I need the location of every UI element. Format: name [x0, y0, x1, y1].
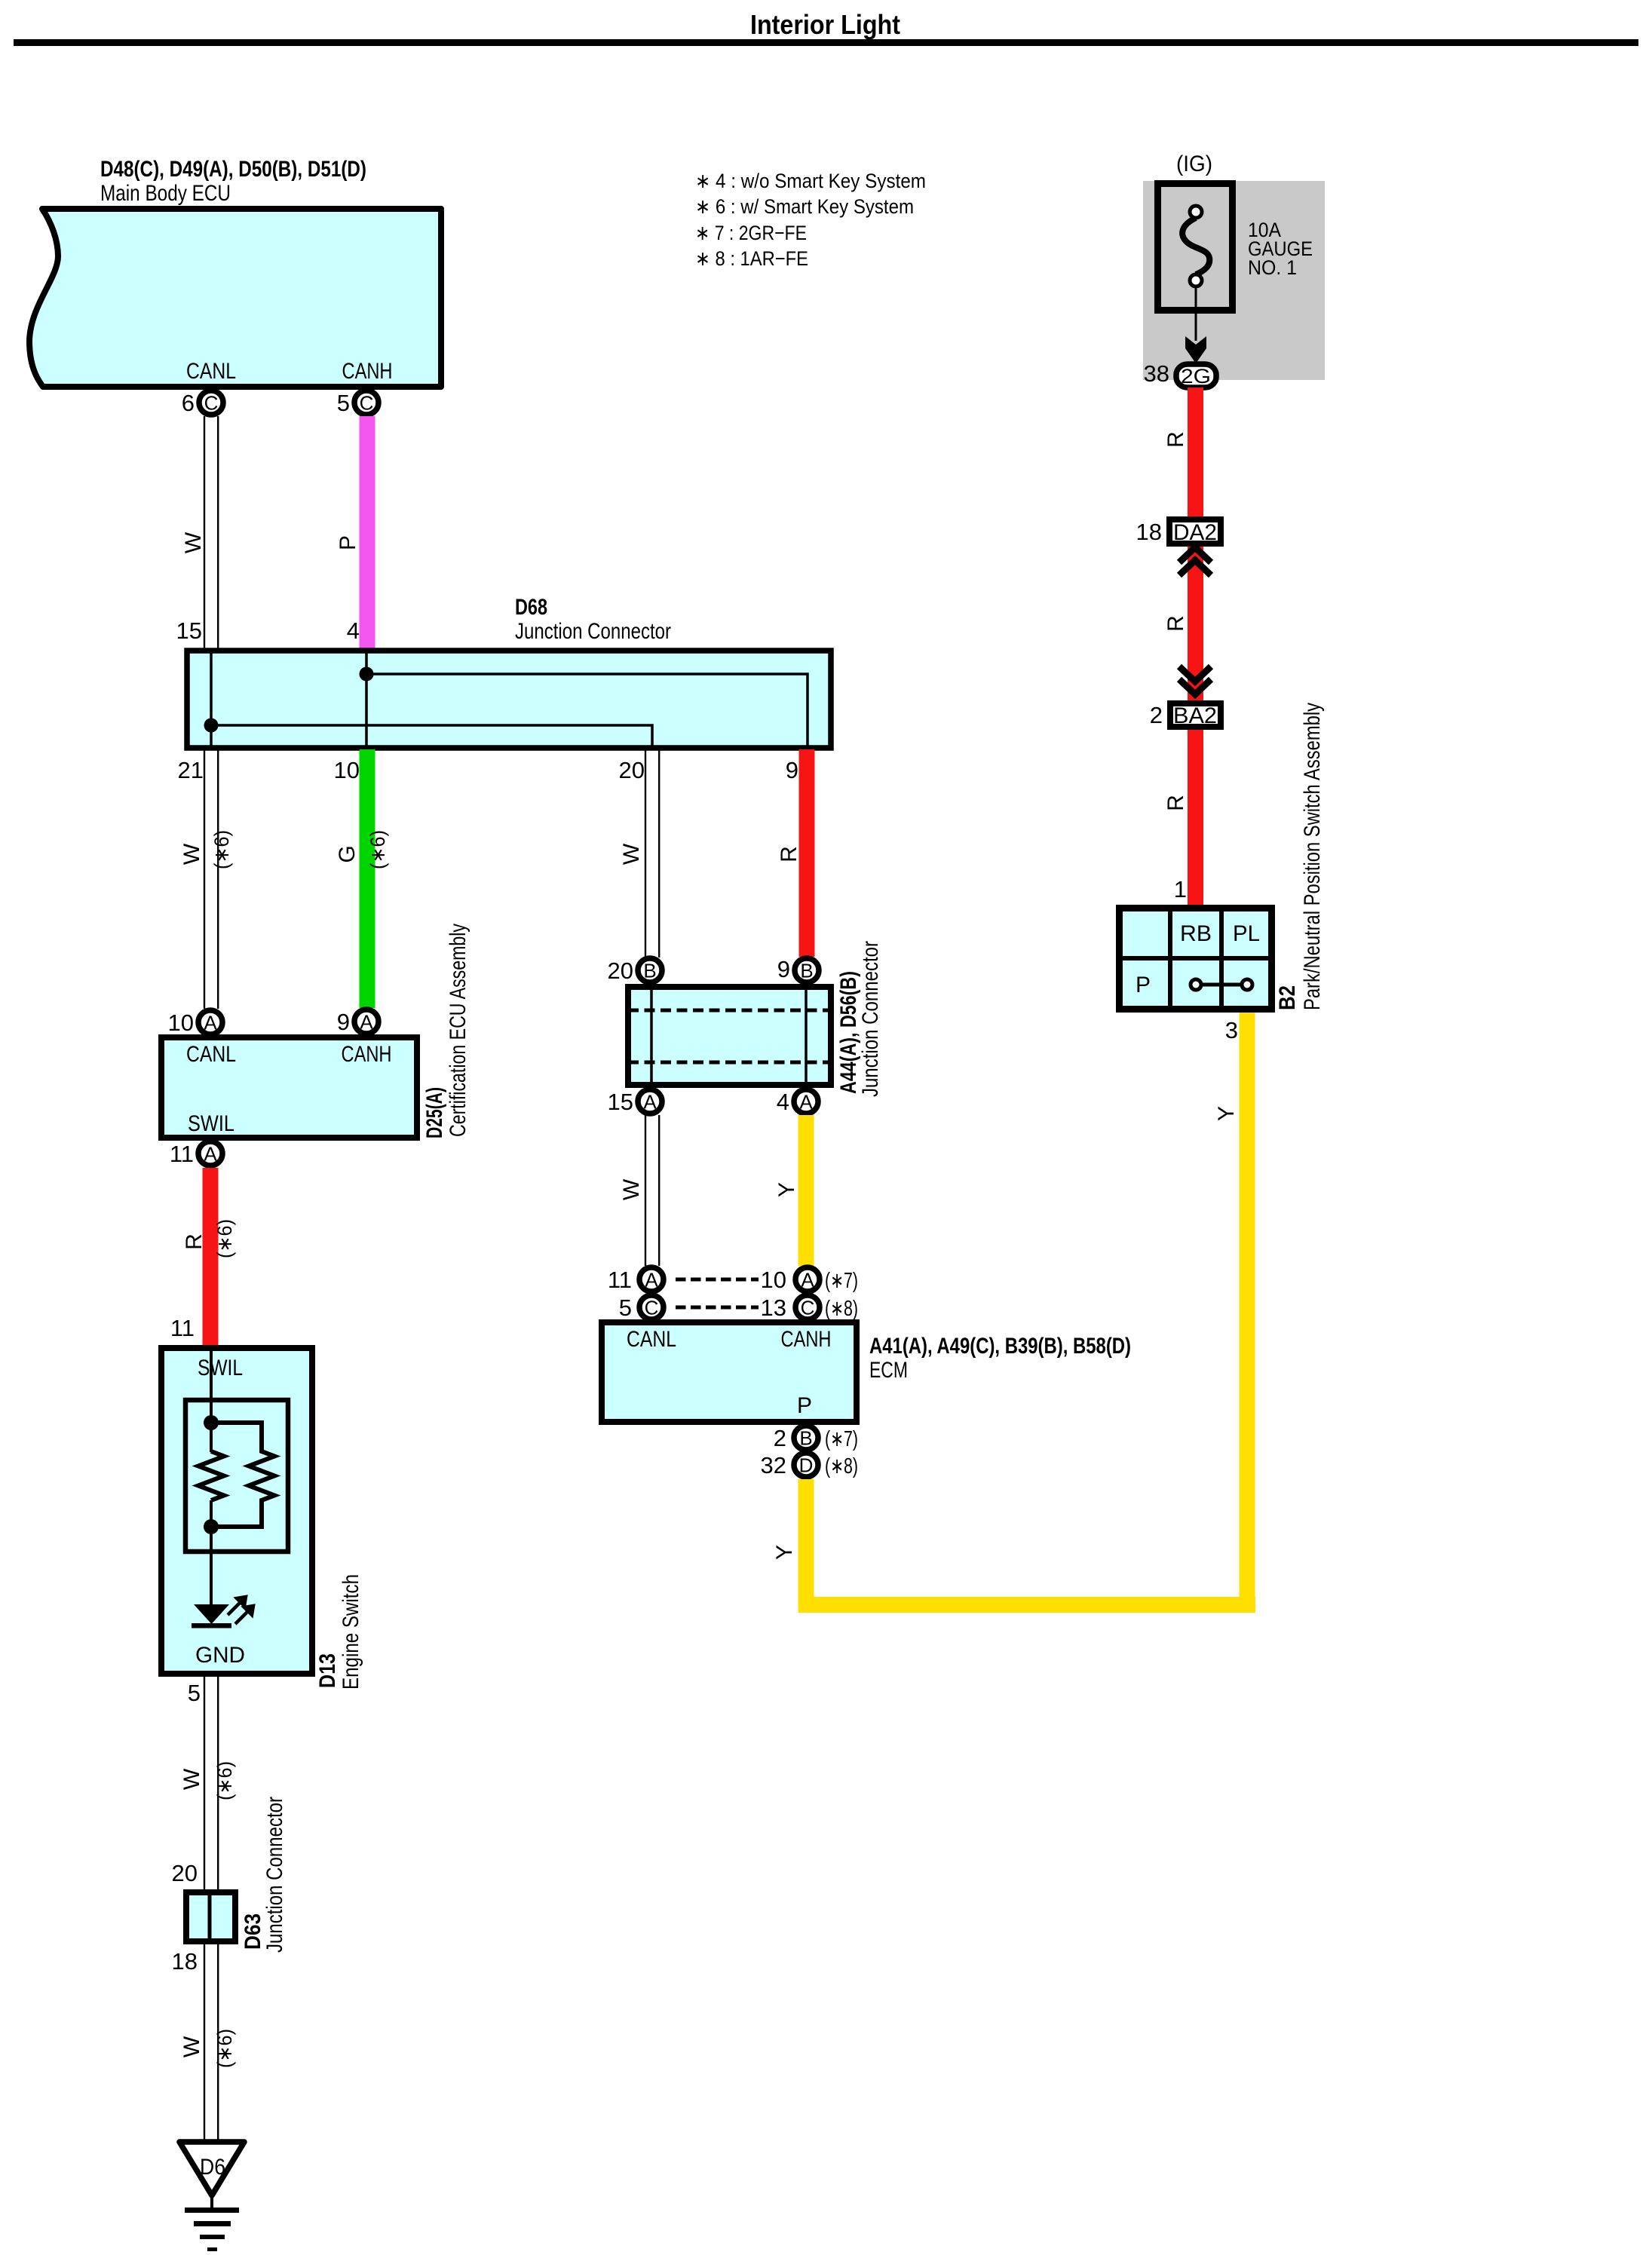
svg-text:9: 9 [786, 757, 798, 783]
svg-text:W: W [179, 2036, 204, 2057]
svg-text:BA2: BA2 [1173, 703, 1217, 728]
svg-text:W: W [179, 843, 204, 865]
svg-text:Junction Connector: Junction Connector [262, 1797, 287, 1953]
svg-text:C: C [801, 1297, 815, 1319]
svg-text:Y: Y [1214, 1106, 1239, 1121]
svg-text:DA2: DA2 [1173, 520, 1217, 545]
svg-text:CANH: CANH [342, 1042, 392, 1067]
svg-text:10: 10 [761, 1267, 786, 1293]
svg-text:5: 5 [188, 1680, 201, 1706]
svg-text:(∗6): (∗6) [366, 830, 389, 869]
svg-text:A: A [360, 1011, 373, 1034]
svg-text:W: W [181, 532, 206, 553]
svg-text:21: 21 [178, 757, 204, 783]
svg-text:A: A [645, 1269, 658, 1291]
svg-text:9: 9 [337, 1009, 350, 1035]
svg-text:A: A [799, 1091, 813, 1114]
svg-text:ECM: ECM [869, 1358, 908, 1383]
svg-text:W: W [619, 843, 644, 865]
svg-text:R: R [1163, 615, 1188, 632]
svg-text:18: 18 [1136, 519, 1162, 545]
svg-text:D13: D13 [315, 1653, 340, 1688]
svg-text:P: P [1136, 973, 1151, 997]
svg-text:R: R [777, 846, 801, 862]
svg-text:Engine Switch: Engine Switch [339, 1574, 363, 1690]
svg-text:C: C [645, 1297, 659, 1319]
svg-text:PL: PL [1233, 921, 1260, 946]
svg-text:CANL: CANL [627, 1327, 676, 1352]
svg-text:SWIL: SWIL [198, 1356, 243, 1380]
svg-text:10: 10 [334, 757, 360, 783]
svg-text:D68: D68 [515, 595, 547, 620]
svg-text:RB: RB [1180, 921, 1212, 946]
svg-text:(∗8): (∗8) [825, 1454, 858, 1478]
svg-text:18: 18 [172, 1948, 198, 1975]
svg-text:W: W [179, 1768, 204, 1790]
svg-text:20: 20 [172, 1860, 198, 1886]
svg-text:R: R [182, 1233, 207, 1250]
svg-text:Main Body ECU: Main Body ECU [100, 181, 231, 206]
svg-text:(∗8): (∗8) [825, 1297, 858, 1321]
svg-text:32: 32 [761, 1452, 786, 1478]
svg-text:Certification ECU Assembly: Certification ECU Assembly [446, 924, 470, 1137]
svg-text:13: 13 [761, 1294, 786, 1321]
svg-text:B: B [799, 1427, 812, 1450]
svg-text:(∗6): (∗6) [213, 2029, 236, 2068]
svg-text:4: 4 [347, 617, 360, 644]
svg-text:Interior Light: Interior Light [750, 9, 900, 40]
svg-text:3: 3 [1225, 1017, 1238, 1043]
svg-text:1: 1 [1174, 876, 1187, 902]
svg-text:20: 20 [619, 757, 645, 783]
svg-text:D25(A): D25(A) [422, 1087, 447, 1138]
svg-text:CANH: CANH [781, 1327, 832, 1352]
svg-text:NO. 1: NO. 1 [1248, 256, 1297, 279]
svg-text:15: 15 [176, 617, 202, 644]
svg-text:A: A [801, 1269, 814, 1291]
svg-text:A41(A), A49(C), B39(B), B58(D): A41(A), A49(C), B39(B), B58(D) [869, 1334, 1131, 1359]
svg-text:38: 38 [1144, 360, 1169, 387]
svg-text:9: 9 [777, 956, 790, 982]
svg-text:2: 2 [774, 1425, 786, 1451]
svg-text:5: 5 [337, 390, 350, 416]
svg-text:B2: B2 [1275, 985, 1300, 1010]
svg-text:P: P [336, 535, 360, 550]
svg-text:R: R [1163, 795, 1188, 811]
svg-text:C: C [360, 392, 374, 415]
svg-text:∗ 4 : w/o Smart Key System: ∗ 4 : w/o Smart Key System [695, 170, 926, 192]
svg-text:20: 20 [608, 957, 633, 984]
svg-text:2: 2 [1150, 702, 1163, 728]
svg-text:15: 15 [608, 1089, 633, 1115]
svg-text:D6: D6 [200, 2155, 225, 2180]
svg-text:∗ 6 : w/ Smart Key System: ∗ 6 : w/ Smart Key System [695, 195, 914, 218]
svg-text:CANH: CANH [342, 359, 393, 384]
svg-text:5: 5 [619, 1294, 632, 1321]
svg-text:CANL: CANL [186, 1042, 236, 1067]
svg-text:(∗6): (∗6) [213, 1219, 236, 1258]
svg-text:6: 6 [182, 390, 195, 416]
svg-text:D: D [799, 1454, 814, 1477]
svg-text:2G: 2G [1181, 365, 1211, 388]
svg-text:G: G [335, 845, 360, 862]
svg-text:R: R [1163, 431, 1188, 448]
svg-text:∗ 7 : 2GR−FE: ∗ 7 : 2GR−FE [695, 222, 807, 244]
svg-text:4: 4 [777, 1089, 789, 1115]
svg-text:11: 11 [608, 1267, 632, 1293]
svg-text:Y: Y [774, 1182, 799, 1197]
svg-text:∗ 8 : 1AR−FE: ∗ 8 : 1AR−FE [695, 247, 808, 270]
svg-text:(IG): (IG) [1176, 152, 1212, 176]
svg-text:GND: GND [195, 1643, 245, 1668]
svg-text:10: 10 [168, 1010, 194, 1036]
svg-text:11: 11 [170, 1141, 194, 1167]
svg-text:Junction Connector: Junction Connector [858, 941, 883, 1097]
svg-text:(∗7): (∗7) [825, 1427, 858, 1451]
svg-text:Junction Connector: Junction Connector [515, 619, 671, 644]
svg-text:D48(C), D49(A), D50(B), D51(D): D48(C), D49(A), D50(B), D51(D) [100, 157, 366, 182]
svg-text:A: A [204, 1143, 217, 1166]
svg-text:B: B [800, 960, 813, 982]
svg-text:Y: Y [772, 1545, 797, 1560]
svg-text:SWIL: SWIL [188, 1111, 234, 1136]
svg-text:CANL: CANL [186, 359, 236, 384]
svg-text:(∗6): (∗6) [213, 1761, 236, 1800]
svg-text:(∗6): (∗6) [210, 830, 233, 869]
svg-text:C: C [204, 392, 219, 415]
svg-text:A: A [204, 1012, 217, 1034]
svg-text:B: B [643, 960, 656, 982]
svg-text:(∗7): (∗7) [825, 1269, 858, 1293]
svg-text:W: W [619, 1178, 644, 1200]
svg-text:P: P [797, 1393, 812, 1418]
svg-text:A: A [643, 1091, 657, 1114]
svg-text:11: 11 [170, 1315, 195, 1341]
svg-text:Park/Neutral Position Switch A: Park/Neutral Position Switch Assembly [1300, 703, 1325, 1010]
